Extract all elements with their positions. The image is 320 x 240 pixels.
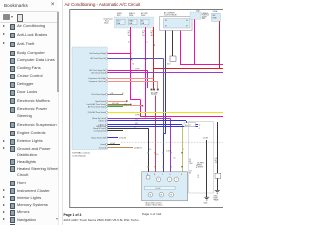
underhood fuse block (dashed box) (115, 17, 154, 28)
svg-text:K33 HVAC Controls: K33 HVAC Controls (72, 152, 90, 155)
ground G305 (204, 197, 209, 200)
HVAC control module K33 (dashed box) (72, 47, 107, 150)
svg-text:FUSE: FUSE (141, 15, 145, 17)
dashed harness divider (121, 141, 223, 143)
svg-text:4: 4 (147, 42, 148, 44)
svg-text:BK: BK (189, 161, 191, 163)
blower motor control module box (142, 172, 188, 201)
wire: blue relay coil drop (165, 31, 167, 134)
svg-text:0.5: 0.5 (174, 158, 176, 160)
svg-text:Control Module: Control Module (72, 154, 86, 157)
node: magenta bus junction F2 (145, 117, 146, 118)
wire: magenta clutch supply branch (108, 70, 148, 72)
wire: dark ground stub (108, 144, 121, 146)
diode D1 A/C clutch diode box (170, 56, 176, 61)
inline connector right (215, 173, 221, 178)
wire: tan ground 2 stub (108, 147, 134, 149)
wire: dark blower control (108, 128, 149, 130)
svg-text:FUSE: FUSE (213, 17, 217, 19)
svg-text:59: 59 (122, 93, 124, 95)
svg-text:A/C RFRG: A/C RFRG (198, 162, 204, 165)
fuse F1 blower motor fuse (117, 19, 126, 25)
svg-text:RIGHT: RIGHT (214, 198, 218, 200)
svg-text:X1 4: X1 4 (185, 125, 188, 127)
ground G306 (215, 190, 220, 193)
svg-text:42: 42 (128, 42, 130, 44)
svg-text:30: 30 (186, 20, 188, 22)
wire: red feed from fuse F3 (153, 27, 155, 79)
inline connector label box on gray box corner (184, 123, 196, 127)
wire: salmon clutch feedback stub (108, 101, 127, 103)
svg-text:0.35 BK: 0.35 BK (203, 138, 208, 140)
wire: red drop from ignition fuse (219, 21, 221, 68)
svg-text:S217: S217 (167, 63, 171, 65)
blower module relay contact (147, 176, 150, 179)
HVAC harness gray box (189, 122, 214, 193)
wire: salmon compressor clutch high (108, 78, 154, 80)
wire: yellow 5V ref bus (108, 112, 224, 114)
svg-text:0.5: 0.5 (134, 127, 136, 129)
underhood fuse block X2 (small dashed box) (190, 12, 201, 19)
connector ticks on verticals (148, 152, 149, 153)
svg-text:FUSE BLK: FUSE BLK (202, 15, 209, 17)
fuse F3 A/C compressor fuse (141, 19, 150, 25)
svg-text:C: C (162, 174, 163, 176)
svg-text:F30DA: F30DA (213, 10, 217, 13)
wire: green 2 stub (108, 106, 124, 108)
svg-text:0.35 BK: 0.35 BK (110, 143, 115, 145)
blower motor M1 (148, 192, 153, 197)
svg-text:0.8: 0.8 (128, 31, 130, 33)
wire: dark sensor drop right (217, 122, 219, 173)
svg-text:0.35: 0.35 (135, 123, 138, 125)
svg-text:BK: BK (215, 160, 217, 162)
svg-text:LIN Bus 2: LIN Bus 2 (99, 124, 106, 126)
svg-text:Module / Blower Motor: Module / Blower Motor (146, 203, 163, 206)
svg-text:BK: BK (189, 173, 191, 175)
svg-text:1450: 1450 (189, 163, 192, 165)
right edge ignition fuse box (212, 13, 221, 21)
svg-text:FUSE: FUSE (129, 15, 133, 17)
svg-text:85: 85 (165, 26, 167, 28)
svg-text:G306: G306 (214, 196, 218, 198)
svg-text:PRESS: PRESS (198, 165, 203, 167)
blower motor M2 (159, 192, 164, 197)
svg-text:0.5 PK 39: 0.5 PK 39 (135, 115, 141, 117)
svg-text:A/C CMP: A/C CMP (141, 12, 148, 15)
svg-text:0.5: 0.5 (149, 149, 151, 151)
svg-text:2: 2 (132, 60, 133, 62)
svg-text:341: 341 (142, 35, 145, 37)
svg-text:0.35: 0.35 (215, 158, 218, 160)
schematic frame (70, 10, 224, 208)
svg-text:0.35 L-GN: 0.35 L-GN (112, 103, 118, 105)
svg-text:CLUTCH RELAY: CLUTCH RELAY (164, 14, 178, 17)
A/C compressor clutch relay K1 outer box (160, 16, 192, 30)
svg-text:0.5 RD 442: 0.5 RD 442 (119, 138, 126, 140)
svg-text:UNDRHD: UNDRHD (202, 13, 209, 15)
svg-text:0.35: 0.35 (124, 104, 127, 106)
svg-text:X4: X4 (132, 64, 134, 66)
SVGEND (65, 2, 141, 7)
svg-text:442: 442 (151, 35, 154, 37)
wire: green low ref (108, 104, 131, 106)
svg-text:2050: 2050 (215, 162, 218, 164)
wire: blue LIN bus 2 to khaki drop (108, 124, 183, 126)
wire: purple indicator bus (108, 72, 224, 74)
svg-text:Block: Block (104, 23, 108, 25)
wire: relay 85 dark drop (172, 31, 174, 57)
wire: salmon sensor signal (108, 105, 142, 107)
svg-text:X1: X1 (198, 175, 200, 177)
svg-text:240: 240 (128, 35, 131, 37)
wire: dark low speed data stub (108, 130, 124, 132)
K33 pin connector marks (106, 52, 108, 54)
svg-text:0.8: 0.8 (156, 154, 158, 156)
A/C compressor clutch coil connector pins (151, 89, 153, 91)
svg-text:PK: PK (128, 33, 130, 35)
wire: blue LIN bus 1 (108, 120, 187, 122)
svg-text:86: 86 (165, 20, 167, 22)
blower module logic bar (144, 187, 175, 190)
svg-text:IGN: IGN (213, 15, 216, 17)
SVGSTART (63, 0, 223, 225)
svg-text:G305: G305 (204, 202, 208, 204)
svg-text:E: E (181, 174, 182, 176)
svg-text:0.35: 0.35 (135, 119, 138, 121)
wire: pink run/crank to F1 vertical (108, 53, 132, 55)
svg-text:2: 2 (183, 149, 184, 151)
svg-text:87: 87 (186, 26, 188, 28)
svg-text:0.35: 0.35 (189, 171, 192, 173)
svg-text:HVAC B: HVAC B (129, 12, 135, 15)
node: junction run/crank (131, 53, 132, 54)
svg-text:0.35 BN 750: 0.35 BN 750 (134, 148, 142, 150)
svg-text:A/C CMPR: A/C CMPR (151, 91, 158, 94)
wire: indigo A/C clutch relay control from K33 (108, 58, 164, 60)
svg-text:D: D (170, 174, 171, 176)
wire: blue GMLAN data bus (108, 126, 199, 128)
wire: blue battery positive stub (108, 137, 119, 139)
wire: khaki drop to blower module (182, 125, 184, 172)
svg-text:0.35: 0.35 (151, 31, 154, 33)
wire: pink riser to fuse block X2 (194, 19, 196, 64)
fuse F2 HVAC fuse (129, 19, 138, 25)
wire: blue jog junction (164, 133, 166, 135)
blower transistor symbol 1 (156, 177, 161, 182)
blower transistor symbol 3 (174, 177, 179, 182)
svg-text:BLWR: BLWR (117, 13, 122, 15)
svg-text:LOGIC: LOGIC (155, 188, 161, 190)
blower motor M3 (169, 192, 174, 197)
wire: dark ground drop inner (206, 140, 208, 197)
svg-text:PK: PK (142, 33, 144, 35)
connector ticks on feed verticals (130, 58, 132, 60)
wire: red bus to right edge (154, 68, 223, 70)
blower transistor symbol 2 (167, 177, 172, 182)
wire: connector to ground right (217, 178, 219, 190)
svg-text:SENSOR: SENSOR (198, 167, 204, 169)
wire: pink relay 87 drop (180, 31, 182, 65)
svg-text:0.5: 0.5 (189, 159, 191, 161)
svg-text:Ground: Ground (100, 144, 105, 146)
wire: salmon compressor clutch low (108, 81, 158, 83)
wire: purple blower signal bus (108, 118, 171, 120)
wire: magenta feed from fuse F2 (145, 27, 147, 117)
wire: magenta feed from fuse F1 (130, 27, 132, 100)
svg-text:LIN Bus 1: LIN Bus 1 (99, 121, 106, 123)
svg-text:Signal Ground: Signal Ground (95, 101, 105, 103)
svg-text:4: 4 (199, 128, 200, 130)
wire: pink horizontal to right (180, 64, 223, 66)
relay K1 inner contact box (164, 19, 191, 28)
svg-text:0.35: 0.35 (142, 31, 145, 33)
svg-text:C2: C2 (198, 177, 200, 179)
svg-text:0.5 PK: 0.5 PK (135, 69, 140, 71)
wire: dark clutch status stub (108, 94, 124, 96)
wire: magenta main bus (141, 116, 224, 118)
svg-text:Ground 2: Ground 2 (99, 148, 106, 150)
svg-text:0.35: 0.35 (111, 93, 114, 95)
wire: pink compressor to blower box (155, 96, 157, 172)
svg-text:12: 12 (199, 125, 201, 127)
